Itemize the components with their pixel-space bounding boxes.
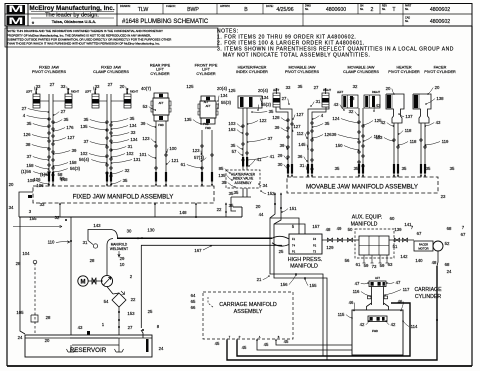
svg-text:39: 39 — [141, 121, 146, 126]
svg-text:67: 67 — [417, 231, 422, 236]
svg-text:39: 39 — [280, 143, 285, 148]
svg-text:47: 47 — [355, 281, 360, 286]
svg-text:CLAMP CYLINDERS: CLAMP CYLINDERS — [93, 70, 129, 74]
svg-text:RESERVOIR: RESERVOIR — [70, 347, 107, 354]
svg-text:43: 43 — [376, 103, 381, 108]
svg-text:45: 45 — [284, 339, 289, 344]
svg-text:CYLINDER: CYLINDER — [150, 72, 169, 76]
svg-text:123: 123 — [142, 136, 150, 141]
svg-text:RIGHT: RIGHT — [71, 90, 79, 94]
svg-text:57: 57 — [232, 149, 237, 154]
svg-text:31: 31 — [83, 240, 88, 245]
svg-text:THAN THOSE FOR WHICH IT WAS FU: THAN THOSE FOR WHICH IT WAS FURNISHED WI… — [7, 42, 160, 46]
svg-text:20: 20 — [9, 182, 14, 187]
svg-text:P2: P2 — [313, 244, 317, 248]
svg-text:55(3): 55(3) — [221, 100, 232, 105]
svg-text:4800602: 4800602 — [430, 7, 450, 13]
svg-text:137: 137 — [405, 114, 413, 119]
svg-text:27: 27 — [61, 109, 66, 114]
svg-text:85: 85 — [219, 166, 224, 171]
svg-text:FWD: FWD — [372, 329, 378, 333]
svg-text:42: 42 — [391, 322, 396, 327]
svg-text:116: 116 — [353, 289, 360, 294]
svg-text:138: 138 — [436, 96, 444, 101]
svg-text:103: 103 — [228, 121, 236, 126]
svg-text:158: 158 — [26, 163, 34, 168]
svg-text:MOVABLE JAW: MOVABLE JAW — [288, 66, 315, 70]
svg-text:45: 45 — [215, 341, 220, 346]
svg-text:29: 29 — [278, 153, 283, 158]
svg-text:34: 34 — [9, 205, 14, 210]
svg-text:35: 35 — [402, 166, 407, 171]
svg-text:MANIFOLD: MANIFOLD — [290, 264, 318, 270]
svg-text:151: 151 — [289, 206, 297, 211]
svg-text:23: 23 — [441, 194, 446, 199]
svg-text:RIGHT: RIGHT — [130, 90, 138, 94]
svg-text:35: 35 — [335, 166, 340, 171]
svg-text:27: 27 — [282, 96, 287, 101]
svg-text:The leader by design.: The leader by design. — [45, 13, 99, 19]
svg-text:22: 22 — [217, 207, 222, 212]
svg-text:CARRIAGE MANIFOLD: CARRIAGE MANIFOLD — [219, 302, 277, 308]
svg-text:102: 102 — [126, 151, 134, 156]
svg-text:22: 22 — [131, 297, 136, 302]
svg-text:57(1): 57(1) — [194, 155, 205, 160]
svg-text:43: 43 — [436, 120, 441, 125]
svg-text:41: 41 — [257, 157, 262, 162]
svg-text:130: 130 — [147, 228, 155, 233]
svg-text:67: 67 — [461, 232, 466, 237]
svg-text:68: 68 — [445, 262, 450, 267]
svg-text:AFT: AFT — [204, 101, 209, 104]
svg-text:56(3): 56(3) — [70, 166, 81, 171]
svg-text:FWD: FWD — [205, 127, 211, 130]
svg-text:43: 43 — [334, 102, 339, 107]
svg-text:20: 20 — [435, 85, 440, 90]
svg-text:135: 135 — [184, 117, 192, 122]
svg-text:24: 24 — [18, 335, 23, 340]
svg-text:127: 127 — [296, 112, 304, 117]
svg-text:LEFT: LEFT — [273, 88, 280, 92]
svg-text:35: 35 — [123, 178, 128, 183]
svg-text:48: 48 — [326, 227, 331, 232]
svg-text:135: 135 — [80, 124, 88, 129]
svg-text:36: 36 — [298, 154, 303, 159]
svg-text:20: 20 — [45, 338, 50, 343]
svg-text:ASSEMBLY: ASSEMBLY — [234, 309, 263, 315]
svg-text:35: 35 — [426, 166, 431, 171]
svg-text:4800600: 4800600 — [326, 7, 346, 13]
svg-text:B: B — [244, 7, 248, 13]
svg-text:135: 135 — [218, 173, 226, 178]
svg-text:31: 31 — [128, 144, 133, 149]
svg-text:No.: No. — [382, 8, 386, 11]
svg-text:139: 139 — [394, 227, 402, 232]
svg-text:46: 46 — [398, 299, 403, 304]
svg-text:118: 118 — [405, 128, 412, 133]
svg-text:32: 32 — [125, 168, 130, 173]
svg-text:43: 43 — [78, 325, 83, 330]
svg-text:37: 37 — [84, 139, 89, 144]
svg-text:27: 27 — [108, 82, 113, 87]
svg-text:28: 28 — [16, 261, 21, 266]
svg-text:TLW: TLW — [138, 7, 149, 13]
svg-text:51: 51 — [393, 244, 398, 249]
svg-text:126: 126 — [23, 132, 31, 137]
svg-text:20: 20 — [120, 84, 125, 89]
svg-text:28: 28 — [46, 315, 51, 320]
svg-text:56: 56 — [345, 258, 350, 263]
svg-text:65: 65 — [191, 299, 196, 304]
svg-text:FIXED JAW: FIXED JAW — [39, 66, 60, 70]
svg-text:110: 110 — [48, 240, 55, 245]
svg-text:29: 29 — [120, 256, 125, 261]
svg-text:142: 142 — [400, 254, 408, 259]
svg-text:32: 32 — [349, 109, 354, 114]
svg-text:CHECK:: CHECK: — [166, 4, 176, 8]
svg-text:148: 148 — [179, 210, 187, 215]
svg-text:P1: P1 — [292, 250, 296, 254]
svg-text:No.: No. — [360, 8, 364, 11]
svg-text:35: 35 — [234, 190, 239, 195]
svg-text:24: 24 — [159, 346, 164, 351]
svg-text:33: 33 — [95, 84, 100, 89]
svg-text:127: 127 — [67, 135, 75, 140]
svg-text:(1)58: (1)58 — [40, 172, 51, 177]
svg-text:54: 54 — [104, 299, 109, 304]
svg-text:167: 167 — [194, 248, 202, 253]
svg-text:64: 64 — [191, 293, 196, 298]
svg-text:152: 152 — [267, 191, 275, 196]
svg-text:FIXED JAW: FIXED JAW — [101, 66, 122, 70]
svg-text:101: 101 — [139, 152, 147, 157]
svg-text:39: 39 — [72, 148, 77, 153]
svg-text:156: 156 — [280, 282, 288, 287]
svg-text:CYLINDER: CYLINDER — [196, 72, 215, 76]
svg-text:AFT: AFT — [375, 276, 380, 280]
svg-text:66: 66 — [191, 305, 196, 310]
svg-text:117: 117 — [403, 287, 410, 292]
svg-text:LEFT: LEFT — [85, 90, 92, 94]
svg-text:DATE:: DATE: — [266, 4, 274, 8]
svg-text:124: 124 — [332, 116, 340, 121]
svg-text:155: 155 — [29, 216, 37, 221]
svg-text:35: 35 — [84, 117, 89, 122]
svg-text:FWD: FWD — [158, 124, 164, 127]
svg-text:AFT: AFT — [206, 105, 211, 108]
svg-text:61: 61 — [181, 162, 186, 167]
svg-text:112: 112 — [297, 131, 304, 136]
svg-text:4800602: 4800602 — [430, 19, 450, 25]
svg-text:4/25/96: 4/25/96 — [276, 7, 293, 13]
svg-text:153: 153 — [127, 311, 135, 316]
svg-text:118: 118 — [410, 139, 417, 144]
svg-text:20: 20 — [386, 86, 391, 91]
svg-text:BWP: BWP — [187, 7, 199, 13]
svg-text:68: 68 — [447, 226, 452, 231]
svg-text:37: 37 — [268, 136, 273, 141]
svg-text:125: 125 — [228, 88, 236, 93]
svg-text:128: 128 — [272, 115, 280, 120]
svg-text:#1648 PLUMBING SCHEMATIC: #1648 PLUMBING SCHEMATIC — [122, 19, 209, 25]
svg-text:46: 46 — [349, 300, 354, 305]
svg-text:100: 100 — [169, 146, 177, 151]
svg-text:41: 41 — [270, 154, 275, 159]
svg-text:27: 27 — [128, 325, 133, 330]
svg-text:PIVOT CYLINDERS: PIVOT CYLINDERS — [285, 70, 320, 74]
svg-text:35: 35 — [298, 84, 303, 89]
svg-text:No.: No. — [305, 8, 309, 11]
svg-text:125: 125 — [186, 84, 194, 89]
svg-text:31: 31 — [316, 99, 321, 104]
svg-text:MANIFOLD: MANIFOLD — [351, 222, 378, 228]
svg-text:INDEX CYLINDER: INDEX CYLINDER — [236, 70, 268, 74]
svg-text:10: 10 — [120, 262, 125, 267]
svg-text:(1)56: (1)56 — [21, 169, 32, 174]
svg-text:50: 50 — [348, 227, 353, 232]
svg-text:21: 21 — [257, 277, 262, 282]
svg-text:106: 106 — [36, 183, 44, 188]
svg-text:113: 113 — [376, 135, 383, 140]
svg-text:37: 37 — [27, 154, 32, 159]
svg-text:APPR'N:: APPR'N: — [220, 4, 230, 8]
svg-text:59: 59 — [364, 263, 369, 268]
svg-text:114: 114 — [411, 324, 418, 329]
svg-text:MAY NOT INDICATE TOTAL ASSEMBL: MAY NOT INDICATE TOTAL ASSEMBLY QUANTITI… — [223, 53, 370, 59]
svg-text:FIXED JAW MANIFOLD ASSEMBLY: FIXED JAW MANIFOLD ASSEMBLY — [73, 194, 174, 201]
svg-text:PIVOT CYLINDERS: PIVOT CYLINDERS — [32, 70, 67, 74]
svg-text:123: 123 — [192, 148, 200, 153]
svg-text:104: 104 — [22, 251, 30, 256]
svg-text:122: 122 — [259, 118, 267, 123]
svg-text:HEATER: HEATER — [396, 66, 411, 70]
svg-text:42: 42 — [381, 120, 386, 125]
svg-text:31: 31 — [300, 163, 305, 168]
svg-text:33: 33 — [131, 130, 136, 135]
svg-text:58: 58 — [60, 176, 65, 181]
svg-text:119: 119 — [442, 139, 449, 144]
svg-text:27: 27 — [50, 82, 55, 87]
svg-text:AFT: AFT — [159, 102, 164, 105]
svg-text:134: 134 — [220, 93, 228, 98]
svg-text:AUX. EQUIP.: AUX. EQUIP. — [352, 215, 382, 221]
svg-text:MOVABLE JAW MANIFOLD ASSEMB: MOVABLE JAW MANIFOLD ASSEMBLY — [306, 184, 418, 191]
svg-text:McElroy Manufacturing, Inc.: McElroy Manufacturing, Inc. — [29, 5, 114, 12]
svg-text:158: 158 — [69, 160, 77, 165]
svg-text:44: 44 — [259, 212, 264, 217]
svg-text:FWD: FWD — [203, 123, 209, 126]
svg-text:CARRIAGE: CARRIAGE — [414, 287, 442, 293]
svg-text:33: 33 — [61, 84, 66, 89]
svg-text:48: 48 — [432, 260, 437, 265]
svg-text:157: 157 — [312, 224, 320, 229]
svg-text:73: 73 — [372, 264, 377, 269]
svg-text:35: 35 — [64, 117, 69, 122]
svg-text:63: 63 — [388, 262, 393, 267]
svg-text:No.: No. — [405, 20, 409, 23]
svg-text:2: 2 — [371, 7, 374, 13]
svg-text:163: 163 — [228, 127, 236, 132]
svg-text:53: 53 — [143, 104, 148, 109]
svg-text:24: 24 — [447, 269, 452, 274]
svg-text:34: 34 — [263, 183, 268, 188]
svg-text:176: 176 — [66, 125, 74, 130]
svg-text:NOTES:: NOTES: — [217, 29, 239, 35]
svg-text:HEATER/FACER: HEATER/FACER — [238, 66, 267, 70]
svg-text:45: 45 — [242, 345, 247, 350]
svg-text:61: 61 — [356, 262, 361, 267]
svg-text:PIVOT CYLINDER: PIVOT CYLINDER — [424, 70, 456, 74]
svg-text:150: 150 — [335, 143, 343, 148]
svg-text:M: M — [8, 4, 23, 14]
svg-text:WELDMENT: WELDMENT — [110, 247, 128, 251]
svg-text:HIGH PRESS.: HIGH PRESS. — [288, 257, 323, 263]
svg-text:ASSEMBLY: ASSEMBLY — [235, 181, 253, 185]
svg-text:56(4): 56(4) — [79, 157, 90, 162]
svg-text:143: 143 — [93, 223, 101, 228]
svg-text:47: 47 — [396, 280, 401, 285]
svg-text:35: 35 — [325, 121, 330, 126]
svg-text:38: 38 — [350, 96, 355, 101]
svg-text:33: 33 — [36, 84, 41, 89]
svg-text:27: 27 — [314, 85, 319, 90]
svg-text:32: 32 — [353, 84, 358, 89]
svg-text:RIGHT: RIGHT — [323, 88, 331, 92]
svg-text:52: 52 — [445, 241, 450, 246]
svg-text:27: 27 — [22, 106, 27, 111]
svg-text:LEFT: LEFT — [26, 90, 33, 94]
svg-text:PIVOT CYLINDER: PIVOT CYLINDER — [388, 70, 420, 74]
svg-text:LEFT: LEFT — [337, 90, 344, 94]
svg-text:20(4): 20(4) — [217, 86, 228, 91]
svg-text:No.: No. — [405, 8, 409, 11]
svg-text:106: 106 — [33, 177, 41, 182]
svg-text:60: 60 — [390, 216, 395, 221]
svg-text:102: 102 — [80, 151, 88, 156]
svg-text:MOVABLE JAW: MOVABLE JAW — [347, 66, 374, 70]
svg-text:33: 33 — [40, 202, 45, 207]
svg-text:35: 35 — [450, 166, 455, 171]
svg-text:115: 115 — [338, 312, 345, 317]
svg-text:39: 39 — [275, 125, 280, 130]
svg-text:155: 155 — [309, 283, 317, 288]
svg-text:25: 25 — [279, 249, 284, 254]
svg-text:20(4): 20(4) — [258, 88, 269, 93]
svg-text:49: 49 — [337, 226, 342, 231]
svg-text:42: 42 — [360, 322, 365, 327]
svg-text:MOTOR: MOTOR — [418, 246, 428, 250]
svg-text:M: M — [81, 280, 86, 286]
svg-text:38: 38 — [26, 142, 31, 147]
svg-text:25: 25 — [148, 309, 153, 314]
svg-text:28: 28 — [90, 258, 95, 263]
svg-text:FACER: FACER — [434, 66, 447, 70]
svg-text:145: 145 — [298, 142, 306, 147]
svg-text:55(2): 55(2) — [261, 102, 272, 107]
svg-text:39: 39 — [332, 132, 337, 137]
svg-text:35: 35 — [130, 116, 135, 121]
svg-text:DRAWN:: DRAWN: — [120, 4, 131, 8]
svg-text:CLAMP CYLINDERS: CLAMP CYLINDERS — [343, 70, 379, 74]
svg-text:32: 32 — [55, 215, 60, 220]
svg-text:134: 134 — [261, 95, 269, 100]
svg-text:129: 129 — [326, 245, 334, 250]
svg-text:140: 140 — [415, 258, 423, 263]
svg-text:105: 105 — [16, 310, 24, 315]
svg-text:35: 35 — [269, 109, 274, 114]
svg-text:RIGHT: RIGHT — [372, 90, 380, 94]
svg-text:20: 20 — [256, 204, 261, 209]
svg-text:134: 134 — [129, 123, 137, 128]
svg-text:59: 59 — [380, 263, 385, 268]
svg-text:CYLINDER: CYLINDER — [415, 294, 441, 300]
svg-text:M: M — [8, 16, 23, 26]
svg-text:30: 30 — [127, 229, 132, 234]
svg-text:40(7): 40(7) — [141, 86, 152, 91]
svg-text:121: 121 — [171, 158, 179, 163]
svg-text:35: 35 — [27, 121, 32, 126]
svg-text:35: 35 — [231, 143, 236, 148]
svg-text:45: 45 — [264, 342, 269, 347]
svg-text:30: 30 — [278, 162, 283, 167]
svg-text:131: 131 — [133, 157, 141, 162]
svg-text:127: 127 — [293, 124, 301, 129]
svg-text:33: 33 — [286, 85, 291, 90]
svg-text:Tulsa, Oklahoma U.S.A.: Tulsa, Oklahoma U.S.A. — [52, 19, 97, 24]
svg-text:134: 134 — [130, 137, 138, 142]
